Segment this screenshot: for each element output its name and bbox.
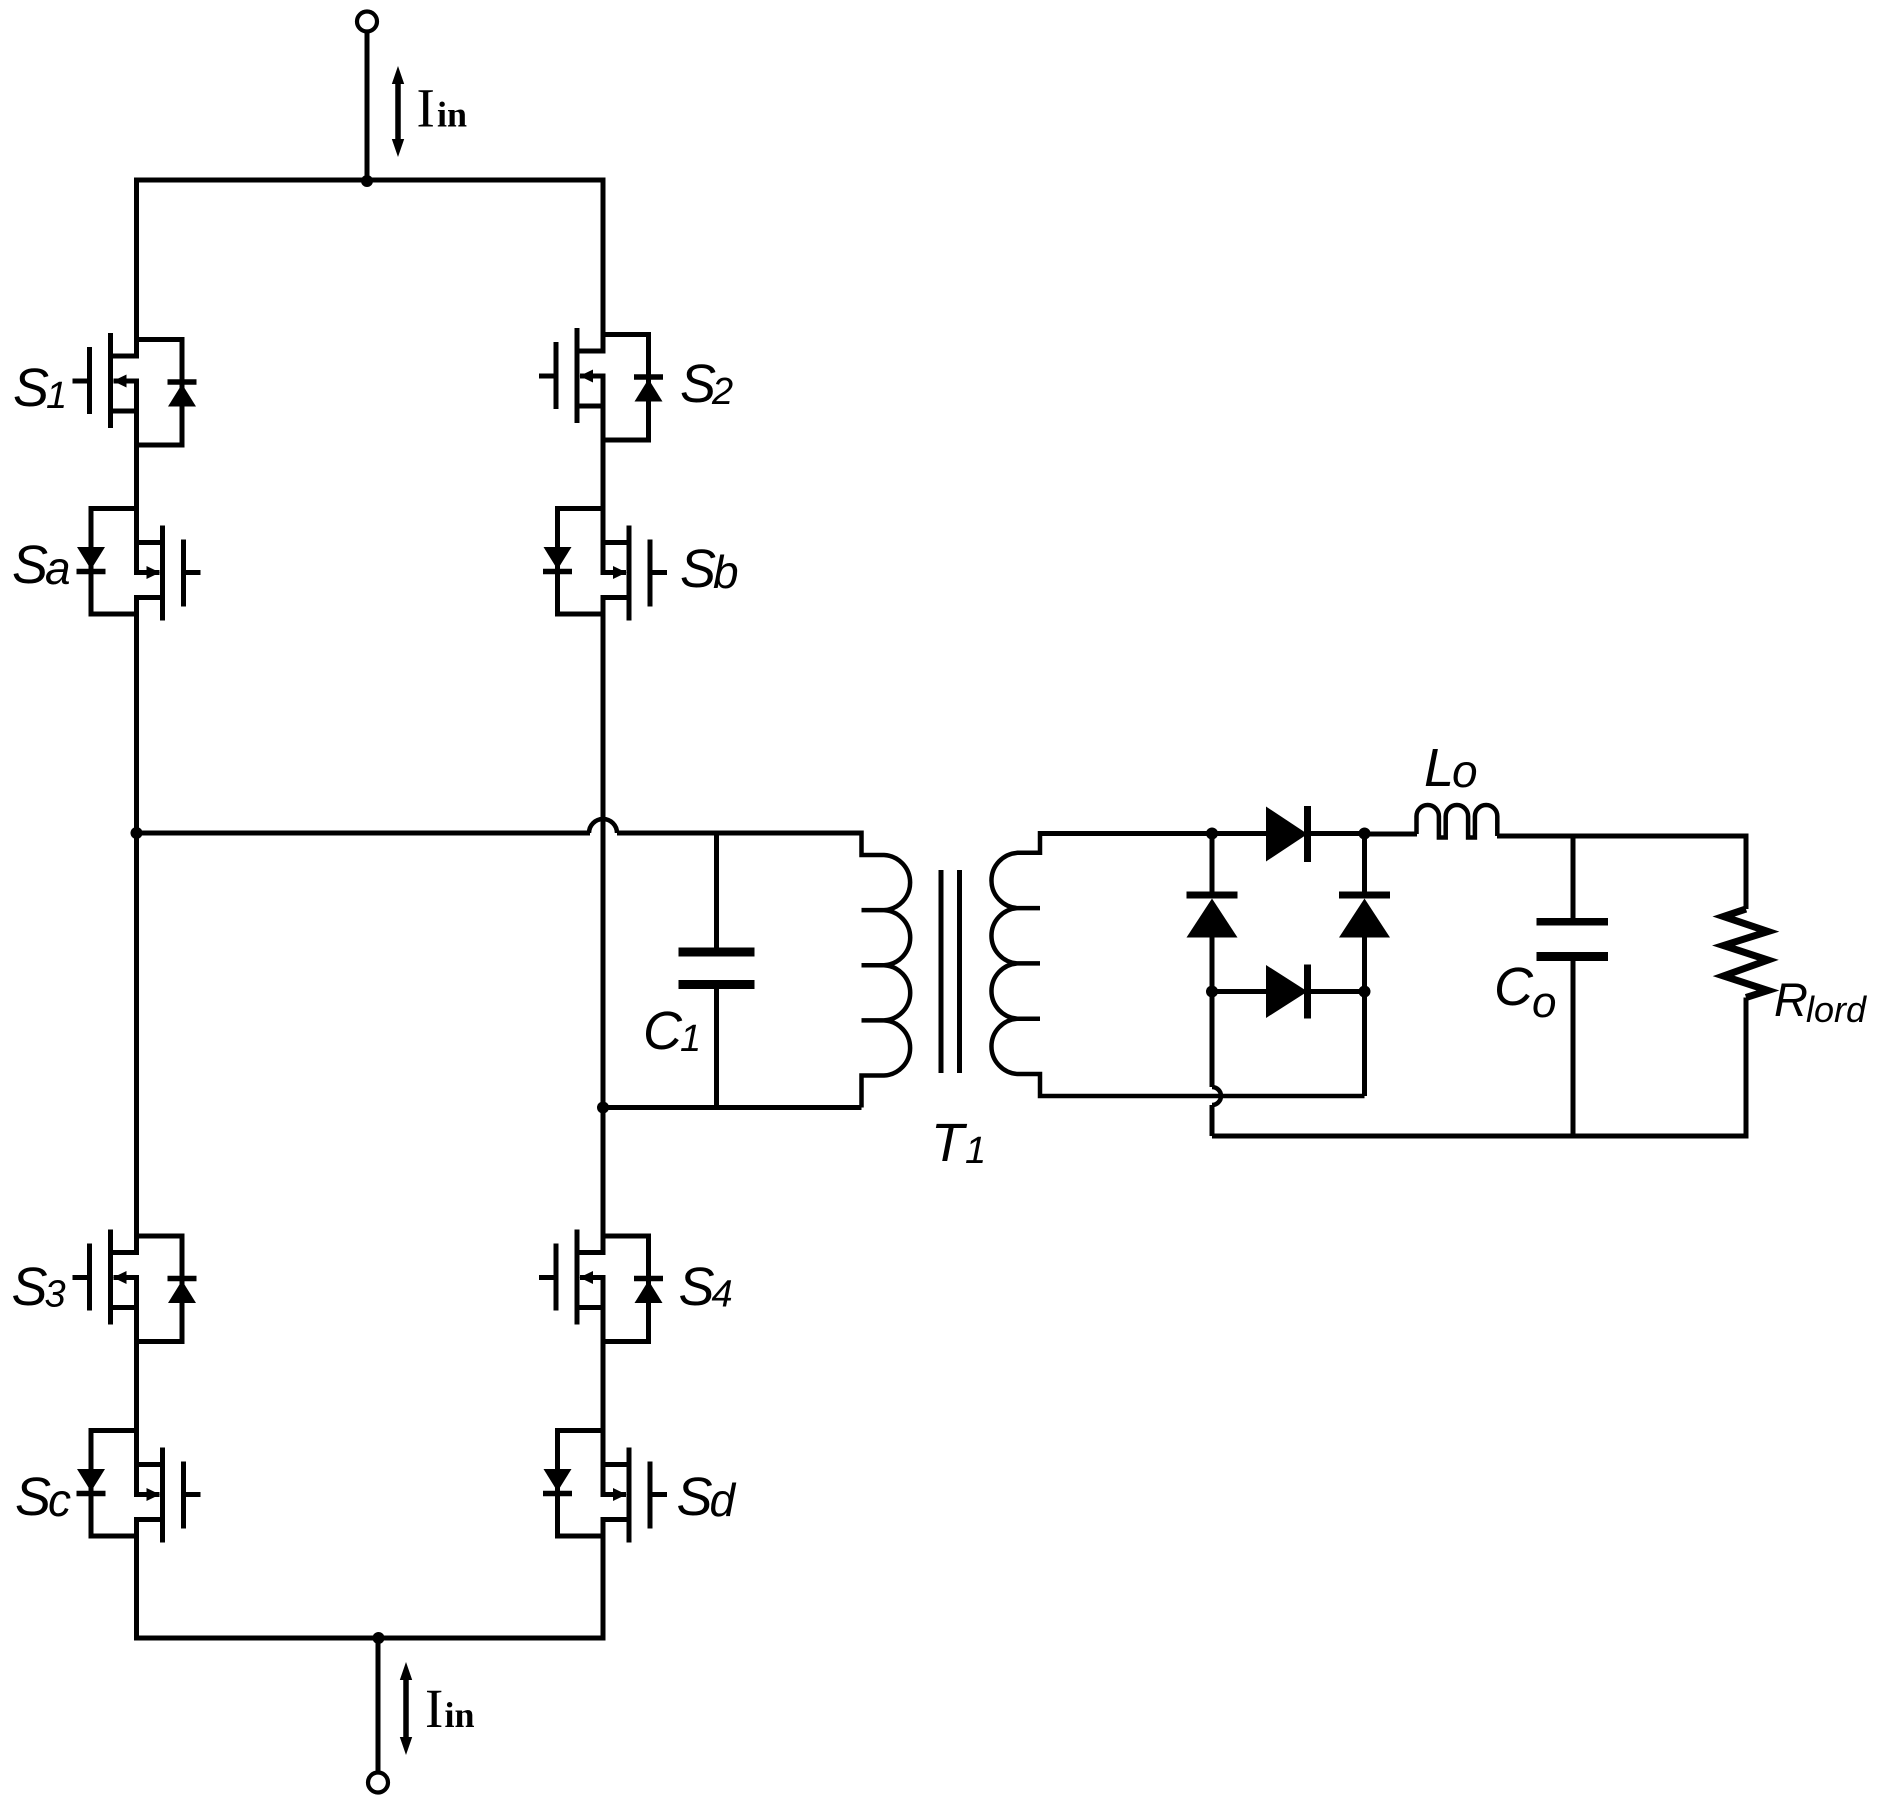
wire rectifier to Lo bbox=[1365, 832, 1418, 837]
node bottom rail junction bbox=[373, 1632, 385, 1644]
wire left leg Sa-S3 bbox=[134, 598, 139, 1253]
wire body-source bbox=[601, 543, 606, 573]
svg-text:S: S bbox=[12, 535, 48, 595]
transistor S2 (MOSFET with body diode) bbox=[539, 328, 663, 440]
wire secondary top bbox=[1040, 831, 1266, 836]
svg-text:I: I bbox=[417, 78, 435, 139]
transformer T1 core bbox=[941, 870, 960, 1073]
bottom input terminal bbox=[368, 1773, 388, 1793]
drain stub bbox=[601, 595, 630, 600]
body stub arrow bbox=[580, 1275, 606, 1280]
node top rail junction bbox=[361, 175, 373, 187]
gate lead bbox=[539, 1275, 556, 1280]
node rectifier mid-left bbox=[1206, 986, 1218, 998]
gate bar bbox=[648, 540, 653, 607]
resistor Rlord bbox=[1724, 834, 1769, 1136]
wire primary bottom bbox=[603, 1105, 862, 1110]
body stub arrow bbox=[580, 374, 606, 379]
channel bar bbox=[627, 1448, 632, 1543]
gate bar bbox=[87, 1244, 92, 1311]
svg-text:4: 4 bbox=[712, 1274, 733, 1316]
svg-text:b: b bbox=[713, 546, 739, 598]
diode D3 (right leg, pointing up) bbox=[1339, 834, 1390, 1097]
wire terminal to top rail bbox=[365, 32, 370, 181]
wire body-source bbox=[601, 1465, 606, 1495]
gate lead bbox=[73, 379, 90, 384]
source stub bbox=[134, 540, 163, 545]
svg-text:d: d bbox=[710, 1474, 737, 1526]
inductor Lo bbox=[1417, 805, 1498, 838]
svg-text:o: o bbox=[1452, 745, 1478, 797]
wire body-source bbox=[134, 1278, 139, 1308]
svg-text:R: R bbox=[1774, 973, 1808, 1026]
gate bar bbox=[181, 540, 186, 607]
svg-text:in: in bbox=[445, 1695, 475, 1735]
body diode of S1 bbox=[137, 340, 183, 446]
wire hop on left leg over secondary bottom bbox=[1212, 1087, 1221, 1105]
source stub bbox=[134, 1462, 163, 1467]
svg-text:S: S bbox=[679, 1257, 715, 1317]
transformer T1 secondary winding bbox=[991, 831, 1364, 1096]
transistor Sb (MOSFET with body diode) bbox=[543, 509, 667, 621]
svg-text:S: S bbox=[680, 539, 716, 599]
top input terminal bbox=[357, 12, 377, 32]
wire left leg S3-Sc bbox=[134, 1308, 139, 1465]
wire right leg lower bbox=[601, 1520, 606, 1639]
gate lead bbox=[184, 1492, 201, 1497]
Iin arrow top bbox=[392, 66, 404, 157]
body stub arrow bbox=[134, 1492, 160, 1497]
body diode of S2 bbox=[603, 335, 649, 441]
node rectifier top-left bbox=[1206, 828, 1218, 840]
body stub arrow bbox=[134, 570, 160, 575]
svg-text:1: 1 bbox=[965, 1130, 986, 1172]
diode D4 (middle, pointing right) bbox=[1212, 965, 1365, 1019]
source stub bbox=[577, 404, 606, 409]
wire left leg upper bbox=[134, 180, 139, 356]
body diode of Sa bbox=[91, 509, 137, 615]
body stub arrow bbox=[601, 1492, 627, 1497]
channel bar bbox=[575, 328, 580, 423]
svg-text:T: T bbox=[931, 1113, 968, 1173]
diode D2 (left leg, pointing up) bbox=[1187, 834, 1238, 1088]
drain stub bbox=[577, 349, 606, 354]
channel bar bbox=[108, 333, 113, 428]
channel bar bbox=[108, 1230, 113, 1325]
wire bottom rail bbox=[134, 1636, 606, 1641]
source stub bbox=[601, 540, 630, 545]
capacitor C1 bbox=[679, 833, 755, 1108]
svg-text:1: 1 bbox=[680, 1018, 701, 1060]
svg-text:3: 3 bbox=[45, 1274, 66, 1316]
gate lead bbox=[650, 1492, 667, 1497]
drain stub bbox=[134, 1517, 163, 1522]
wire body-source bbox=[134, 381, 139, 411]
gate lead bbox=[539, 374, 556, 379]
Iin arrow bottom bbox=[400, 1662, 412, 1755]
svg-text:C: C bbox=[1494, 957, 1534, 1017]
wire body-source bbox=[601, 376, 606, 406]
drain stub bbox=[111, 354, 140, 359]
drain stub bbox=[111, 1250, 140, 1255]
wire Lo to Rlord corner bbox=[1497, 834, 1749, 839]
wire body-source bbox=[134, 543, 139, 573]
wire body-source bbox=[134, 1465, 139, 1495]
transistor S3 (MOSFET with body diode) bbox=[73, 1230, 197, 1342]
wire left leg to output bottom bbox=[1210, 1105, 1215, 1136]
svg-text:I: I bbox=[425, 1678, 443, 1739]
gate lead bbox=[73, 1275, 90, 1280]
svg-text:S: S bbox=[677, 1467, 713, 1527]
transformer T1 primary winding bbox=[862, 831, 911, 1108]
svg-text:S: S bbox=[15, 1467, 51, 1527]
channel bar bbox=[160, 526, 165, 621]
svg-text:c: c bbox=[48, 1474, 71, 1526]
node rectifier mid-right bbox=[1359, 986, 1371, 998]
gate bar bbox=[87, 347, 92, 414]
body diode of S4 bbox=[603, 1236, 649, 1342]
gate bar bbox=[181, 1462, 186, 1529]
svg-text:a: a bbox=[45, 542, 71, 594]
gate lead bbox=[650, 570, 667, 575]
capacitor Co bbox=[1537, 836, 1609, 1136]
wire top rail bbox=[134, 178, 606, 183]
svg-text:S: S bbox=[12, 1257, 48, 1317]
transistor Sd (MOSFET with body diode) bbox=[543, 1431, 667, 1543]
source stub bbox=[111, 1305, 140, 1310]
node A (bridge mid-point left) bbox=[131, 827, 143, 839]
wire hop over right leg bbox=[589, 819, 617, 833]
wire bottom rail to terminal bbox=[376, 1638, 381, 1773]
channel bar bbox=[575, 1230, 580, 1325]
gate lead bbox=[184, 570, 201, 575]
transistor S4 (MOSFET with body diode) bbox=[539, 1230, 663, 1342]
drain stub bbox=[601, 1517, 630, 1522]
wire right leg upper bbox=[601, 180, 606, 351]
wire right leg S4-Sd bbox=[601, 1308, 606, 1465]
wire left leg lower bbox=[134, 1520, 139, 1639]
node rectifier top-right bbox=[1359, 828, 1371, 840]
wire left leg S1-Sa bbox=[134, 411, 139, 543]
body stub arrow bbox=[114, 1275, 140, 1280]
transistor Sa (MOSFET with body diode) bbox=[77, 509, 201, 621]
body diode of S3 bbox=[137, 1236, 183, 1342]
gate bar bbox=[554, 1244, 559, 1311]
body stub arrow bbox=[601, 570, 627, 575]
body diode of Sc bbox=[91, 1431, 137, 1537]
gate bar bbox=[648, 1462, 653, 1529]
wire hop to primary bbox=[617, 831, 862, 836]
node primary bottom on right leg bbox=[597, 1102, 609, 1114]
svg-text:C: C bbox=[643, 1001, 683, 1061]
body diode of Sb bbox=[558, 509, 604, 615]
svg-text:o: o bbox=[1532, 978, 1556, 1027]
transistor S1 (MOSFET with body diode) bbox=[73, 333, 197, 445]
drain stub bbox=[577, 1250, 606, 1255]
body stub arrow bbox=[114, 379, 140, 384]
svg-text:L: L bbox=[1424, 738, 1454, 798]
diode D1 (top, pointing right) bbox=[1266, 806, 1365, 862]
drain stub bbox=[134, 595, 163, 600]
svg-text:lord: lord bbox=[1806, 989, 1867, 1030]
channel bar bbox=[160, 1448, 165, 1543]
svg-text:1: 1 bbox=[46, 375, 67, 417]
svg-text:S: S bbox=[680, 354, 716, 414]
transistor Sc (MOSFET with body diode) bbox=[77, 1431, 201, 1543]
source stub bbox=[577, 1305, 606, 1310]
svg-text:in: in bbox=[437, 95, 467, 135]
wire mid node to hop bbox=[137, 831, 591, 836]
gate bar bbox=[554, 342, 559, 409]
wire body-source bbox=[601, 1278, 606, 1308]
source stub bbox=[601, 1462, 630, 1467]
body diode of Sd bbox=[558, 1431, 604, 1537]
svg-text:S: S bbox=[13, 358, 49, 418]
wire right leg S2-Sb bbox=[601, 406, 606, 543]
source stub bbox=[111, 409, 140, 414]
wire output bottom bbox=[1212, 1134, 1749, 1139]
channel bar bbox=[627, 526, 632, 621]
svg-text:2: 2 bbox=[711, 371, 733, 413]
wire right leg Sb-S4 bbox=[601, 598, 606, 1253]
